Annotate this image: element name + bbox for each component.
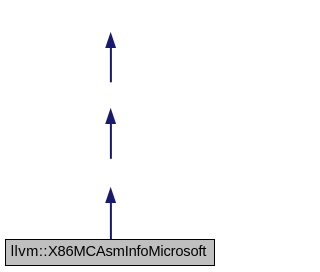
inheritance edge 3 (bottom, rising from the class node) <box>105 187 116 240</box>
arrowhead of edge 3 <box>105 187 116 203</box>
class node llvm::X86MCAsmInfoMicrosoft (current class, grey box) <box>6 240 215 266</box>
inheritance edge 2 (middle, toward hidden base class) <box>105 108 116 159</box>
arrowhead of edge 1 <box>105 32 116 48</box>
shaft of edge 3 <box>110 202 112 240</box>
shaft of edge 2 <box>110 123 112 159</box>
node box <box>6 240 215 266</box>
shaft of edge 1 <box>110 47 112 83</box>
arrowhead of edge 2 <box>105 108 116 124</box>
svg-text:llvm::X86MCAsmInfoMicrosoft: llvm::X86MCAsmInfoMicrosoft <box>11 244 206 260</box>
inheritance edge 1 (topmost, toward hidden base class) <box>105 32 116 82</box>
